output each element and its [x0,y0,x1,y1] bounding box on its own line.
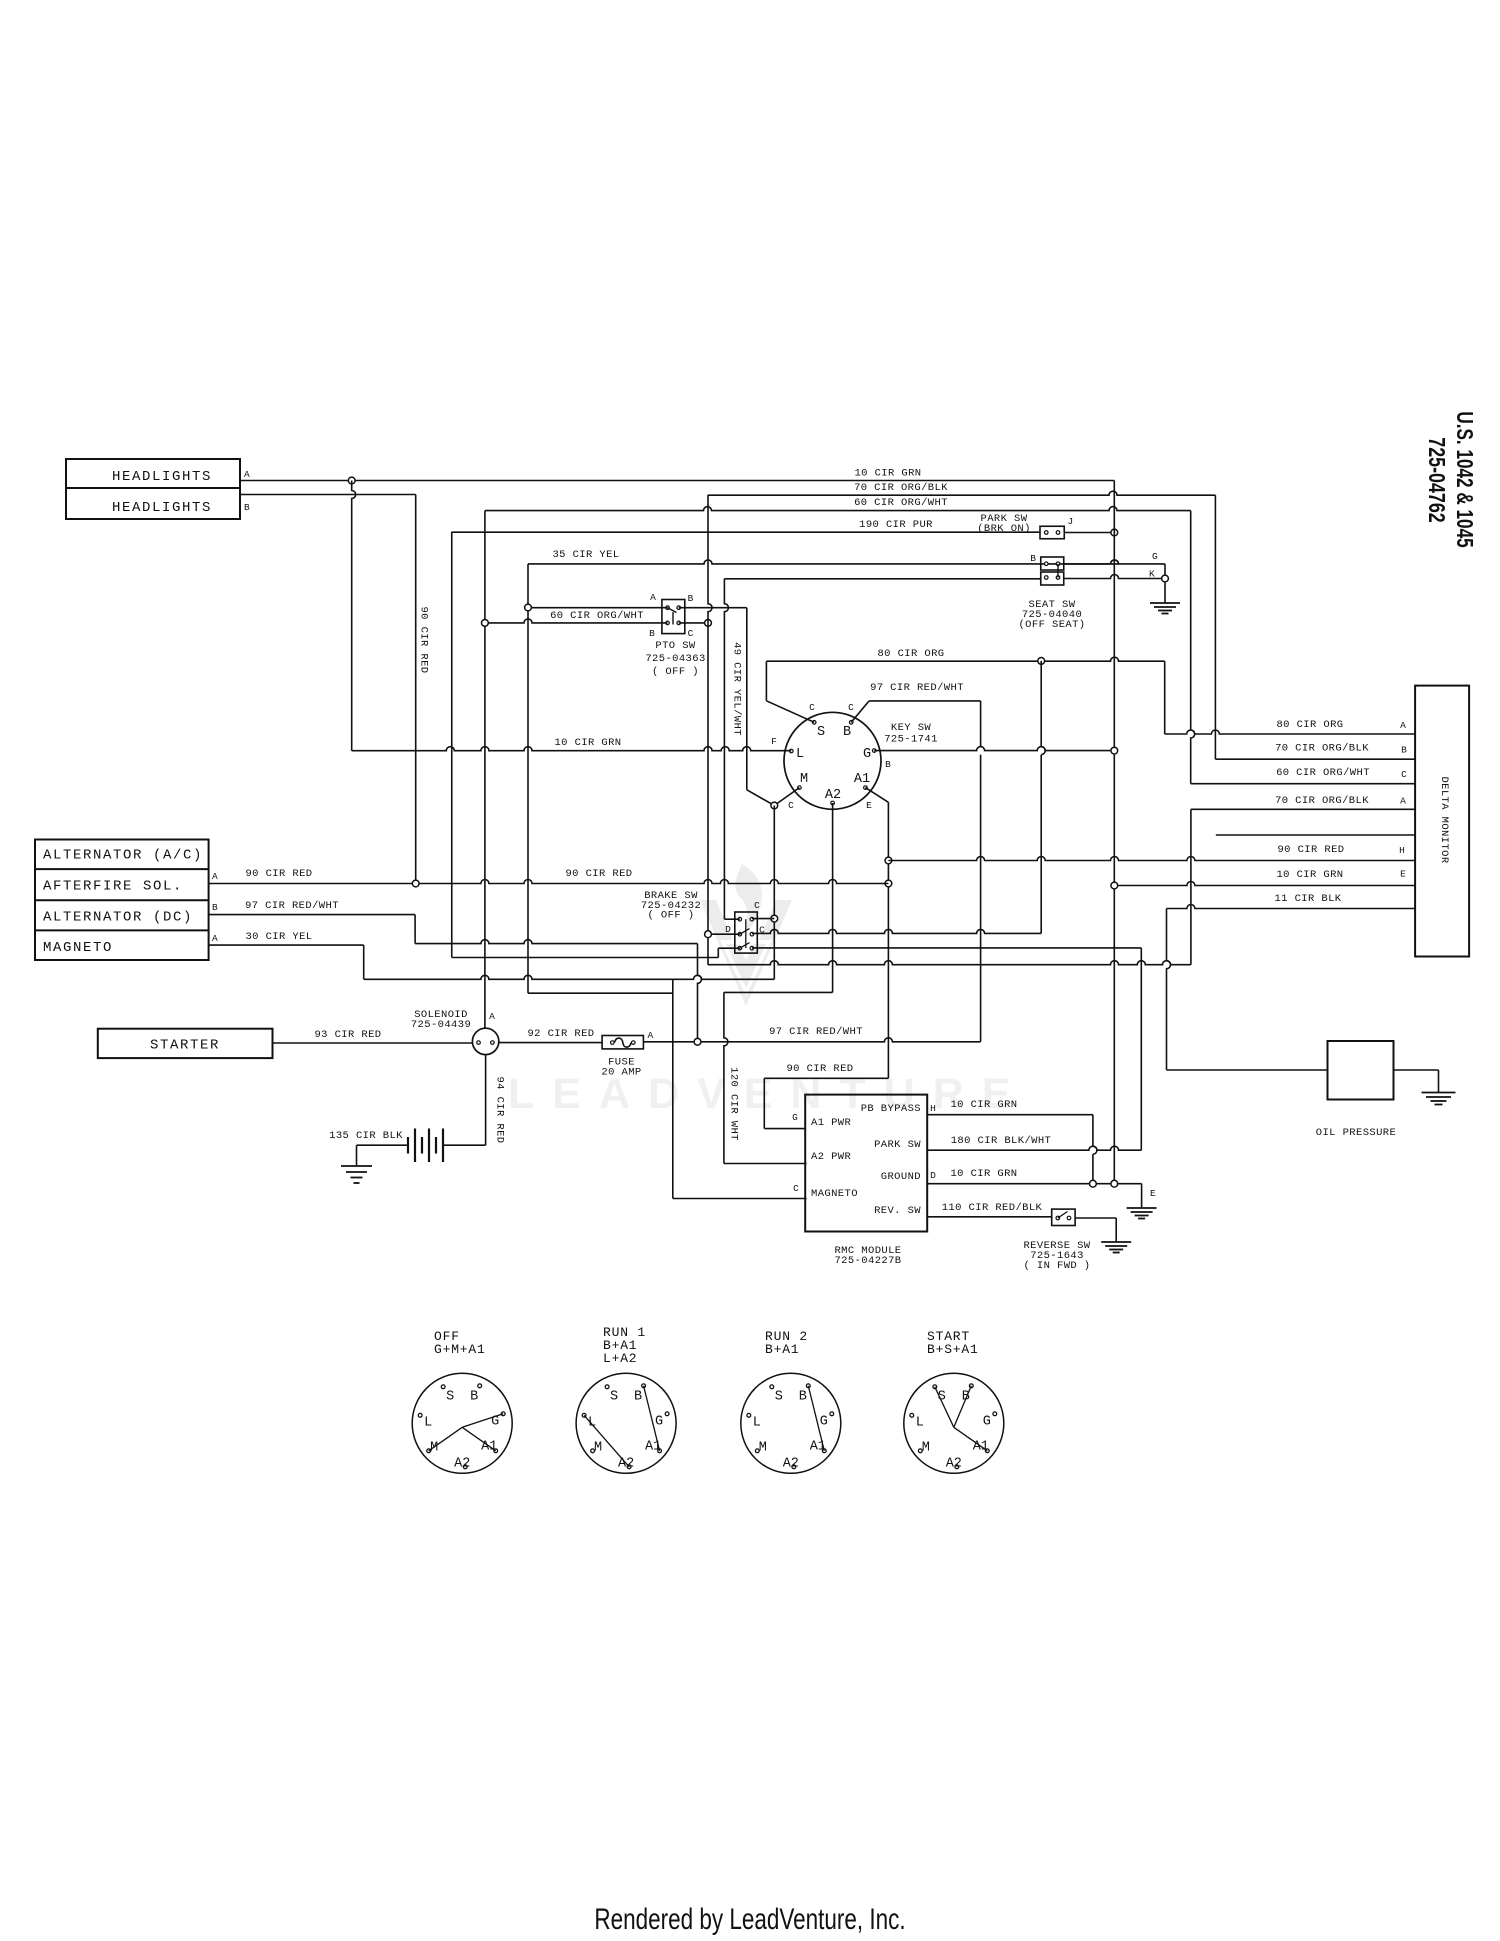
label FUSE 20 AMP [601,1057,641,1079]
svg-text:H: H [1399,845,1405,856]
label 70 CIR ORG/BLK (top) [854,482,948,494]
label E (ground) [1150,1188,1156,1199]
wire 70 CIR ORG/BLK (top) [708,491,1216,495]
svg-text:G+M+A1: G+M+A1 [434,1342,486,1357]
svg-text:A: A [650,592,656,603]
svg-text:B: B [885,759,891,770]
wire park SW to junction [1064,532,1114,534]
svg-text:( OFF ): ( OFF ) [652,666,699,678]
svg-text:10 CIR GRN: 10 CIR GRN [1276,869,1343,881]
wire RMC ground 10 CIR GRN [927,1183,1141,1185]
alternator / afterfire / magneto box stack [35,840,209,961]
svg-text:E: E [1400,869,1406,880]
wire key A1 drop [865,788,888,1079]
svg-text:S: S [775,1389,783,1404]
wire 190 CIR PUR vertical [451,532,453,958]
svg-text:A: A [647,1030,653,1041]
label 92 CIR RED [527,1028,594,1040]
key pin label S [817,725,825,740]
wire oil pressure to ground [1394,1070,1439,1093]
svg-text:A: A [212,871,218,882]
key switch 725-1741 [784,712,881,809]
svg-text:A: A [212,933,218,944]
junction (brake row1 / M) [771,915,778,922]
wire pto pin A feed [528,607,668,609]
label 97 CIR RED/WHT (alternator) [245,900,339,912]
label KEY SW 725-1741 [884,722,938,746]
svg-text:L: L [753,1415,761,1430]
svg-text:90 CIR RED: 90 CIR RED [245,868,312,880]
label PTO SW 725-04363 (OFF) [645,640,705,678]
svg-text:725-04762: 725-04762 [1423,437,1449,522]
svg-text:B: B [244,502,250,513]
svg-text:B: B [843,725,851,740]
svg-text:(BRK ON): (BRK ON) [977,523,1031,535]
junction (35 yel / pto A) [525,604,532,611]
label 97 CIR RED/WHT (key B) [870,682,964,694]
wire headlight A drop to key L [352,481,356,751]
svg-text:725-1741: 725-1741 [884,734,938,746]
svg-text:C: C [754,900,760,911]
ground (seat SW) [1150,603,1180,614]
svg-text:80 CIR ORG: 80 CIR ORG [1276,719,1343,731]
wire pto pin B out [679,607,747,609]
label 10 CIR GRN (delta E) [1276,869,1343,881]
wire 135 CIR BLK [357,1145,409,1166]
svg-text:11 CIR BLK: 11 CIR BLK [1274,893,1341,905]
svg-text:C: C [809,702,815,713]
label GROUND (rmc) [881,1171,921,1183]
svg-text:B+S+A1: B+S+A1 [927,1342,979,1357]
svg-text:90 CIR RED: 90 CIR RED [1277,844,1344,856]
wire RMC magneto feed [673,1198,807,1200]
label D (brake) [725,924,731,935]
svg-text:70 CIR ORG/BLK: 70 CIR ORG/BLK [1275,743,1369,755]
label A (solenoid) [489,1011,495,1022]
junction (ground bus / delta E) [1111,882,1118,889]
wire magneto kill drop [672,979,674,1198]
pin label A (magneto) [212,933,218,944]
label A1 PWR [811,1117,852,1129]
svg-text:B: B [470,1389,478,1404]
label PARK SW (rmc) [874,1139,921,1151]
wire 110 CIR RED/BLK [927,1216,1051,1218]
wire brake D feed [708,933,740,935]
label H (rmc pb) [930,1103,936,1114]
junction (A1 / delta H) [885,857,892,864]
label 10 CIR GRN (ground) [950,1168,1017,1180]
svg-text:B: B [1401,745,1407,756]
label B (pto top) [688,593,694,604]
svg-text:MAGNETO: MAGNETO [43,940,113,956]
wire 97 CIR RED/WHT (fuse bus) [643,1038,980,1042]
label C (delta pin) [1401,769,1407,780]
svg-text:S: S [446,1389,454,1404]
svg-text:725-04363: 725-04363 [645,653,705,665]
svg-text:Rendered by LeadVenture, Inc.: Rendered by LeadVenture, Inc. [594,1902,905,1936]
wire 60 CIR ORG/WHT lower [485,619,668,623]
wire key G ground [874,747,1114,751]
wire brake row3 left jog [718,948,740,957]
svg-text:49 CIR YEL/WHT: 49 CIR YEL/WHT [731,642,743,736]
svg-text:E: E [866,800,872,811]
wire 30 CIR YEL [209,945,775,979]
svg-text:725-04439: 725-04439 [411,1019,471,1031]
label B (G wire) [885,759,891,770]
wire 92 CIR RED [499,1042,602,1044]
label 80 CIR ORG (delta A) [1276,719,1343,731]
svg-text:92 CIR RED: 92 CIR RED [527,1028,594,1040]
label J [1068,516,1074,527]
label BRAKE SW 725-04232 (OFF) [641,890,701,922]
junction (80 org / brake C) [1038,658,1045,665]
svg-text:C: C [688,628,694,639]
svg-text:OIL PRESSURE: OIL PRESSURE [1316,1127,1396,1139]
svg-text:U.S. 1042 & 1045: U.S. 1042 & 1045 [1451,411,1477,547]
seat SW 725-04040 [1041,557,1064,585]
pin label A (afterfire) [212,871,218,882]
svg-text:M: M [759,1440,767,1455]
wire key M to junction [774,788,799,806]
wire key L feed [352,747,792,751]
label 90 CIR RED (mid) [565,868,632,880]
svg-text:STARTER: STARTER [150,1038,220,1054]
svg-text:( IN FWD ): ( IN FWD ) [1023,1260,1090,1272]
svg-text:20 AMP: 20 AMP [601,1067,641,1079]
label SEAT SW 725-04040 (OFF SEAT) [1018,599,1085,631]
label 80 CIR ORG [877,648,944,660]
svg-text:A2: A2 [454,1456,470,1471]
svg-text:E: E [1150,1188,1156,1199]
label REVERSE SW 725-1643 (IN FWD) [1023,1240,1090,1272]
label C (pto) [688,628,694,639]
svg-text:B: B [634,1389,642,1404]
wire key A2 drop [832,803,834,992]
wire RMC A2 feed [724,1163,807,1165]
wire 11 CIR BLK [1167,905,1416,909]
svg-text:A1 PWR: A1 PWR [811,1117,852,1129]
svg-text:70 CIR ORG/BLK: 70 CIR ORG/BLK [1275,795,1369,807]
svg-text:93 CIR RED: 93 CIR RED [314,1029,381,1041]
label K (seat) [1149,569,1155,580]
solenoid 725-04439 [472,1028,498,1054]
label G (rmc a1) [792,1112,798,1123]
label 110 CIR RED/BLK [942,1202,1043,1214]
brake switch 725-04232 [735,912,758,953]
title U.S. 1042 & 1045 [1451,411,1477,547]
svg-text:35 CIR YEL: 35 CIR YEL [552,549,619,561]
key position RUN 1 [576,1325,676,1473]
svg-text:190 CIR PUR: 190 CIR PUR [859,519,933,531]
wire 190 pur run [452,957,719,959]
rmc module 725-04227B [805,1095,927,1232]
wire seat ground drop [1164,564,1166,579]
svg-text:J: J [1068,516,1074,527]
svg-text:G: G [792,1112,798,1123]
wire 120 CIR WHT vertical [724,992,728,1163]
label H (delta pin) [1399,845,1405,856]
label D (rmc ground) [930,1170,936,1181]
svg-text:G: G [983,1414,991,1429]
svg-text:GROUND: GROUND [881,1171,921,1183]
pin label B (alternator dc) [212,902,218,913]
wire brake C out [752,929,1041,933]
svg-text:97 CIR RED/WHT: 97 CIR RED/WHT [245,900,339,912]
label C (B wire) [848,702,854,713]
junction (A1 / 90 cir red) [885,880,892,887]
svg-text:L: L [424,1415,432,1430]
label C (M wire) [788,800,794,811]
svg-text:C: C [788,800,794,811]
svg-text:10 CIR GRN: 10 CIR GRN [950,1099,1017,1111]
wire 70 org/blk drop vertical [708,495,712,965]
label 60 CIR ORG/WHT (lower) [550,610,644,622]
wire seat G [1064,560,1165,564]
svg-text:10 CIR GRN: 10 CIR GRN [554,737,621,749]
footer Rendered by LeadVenture, Inc. [594,1902,905,1936]
key position RUN 2 [741,1329,841,1473]
label 35 CIR YEL [552,549,619,561]
wire 190 CIR PUR [452,531,1040,533]
park SW 725-04040 [1040,526,1064,539]
svg-text:PB BYPASS: PB BYPASS [861,1103,921,1115]
svg-text:120 CIR WHT: 120 CIR WHT [728,1067,740,1141]
wire 80 CIR ORG [766,657,1164,722]
key pin label A1 [854,772,870,787]
wire 97 CIR RED/WHT (alternator dc) [209,915,698,944]
wire delta stub [1216,834,1415,836]
wire 10 CIR GRN (headlight A) [240,480,1114,482]
svg-text:HEADLIGHTS: HEADLIGHTS [112,500,212,516]
wire pto pin C out [679,622,708,624]
svg-text:C: C [793,1183,799,1194]
svg-text:M: M [922,1440,930,1455]
ground (oil pressure) [1422,1093,1456,1105]
svg-text:110 CIR RED/BLK: 110 CIR RED/BLK [942,1202,1043,1214]
wire 94 CIR RED [485,1055,487,1146]
wire 90 CIR RED (afterfire) [209,880,889,884]
label 90 CIR RED (rmc) [786,1063,853,1075]
svg-text:F: F [771,736,777,747]
svg-text:HEADLIGHTS: HEADLIGHTS [112,469,212,485]
wire 90 CIR RED (rmc A1) [764,1078,888,1128]
label RMC MODULE 725-04227B [834,1245,901,1267]
svg-text:M: M [800,772,808,787]
svg-text:A: A [244,469,250,480]
svg-text:A2: A2 [783,1456,799,1471]
label C (brake top) [754,900,760,911]
wire reverse to ground [1075,1218,1116,1242]
svg-text:10 CIR GRN: 10 CIR GRN [950,1168,1017,1180]
pin label A (headlights) [244,469,250,480]
label 94 CIR RED [494,1076,506,1143]
label 10 CIR GRN (top) [854,468,921,480]
svg-text:L: L [916,1415,924,1430]
svg-text:(OFF SEAT): (OFF SEAT) [1018,619,1085,631]
label C (rmc magneto) [793,1183,799,1194]
wire key B drop [980,701,982,1042]
svg-text:K: K [1149,569,1155,580]
label REV. SW (rmc) [874,1205,921,1217]
svg-text:70 CIR ORG/BLK: 70 CIR ORG/BLK [854,482,948,494]
label 70 CIR ORG/BLK (delta A2) [1275,795,1369,807]
wire 120 CIR WHT link [724,991,833,993]
svg-text:97 CIR RED/WHT: 97 CIR RED/WHT [870,682,964,694]
wire battery positive [443,1144,486,1146]
svg-text:AFTERFIRE SOL.: AFTERFIRE SOL. [43,879,183,895]
label 93 CIR RED [314,1029,381,1041]
wire seat K [1064,575,1165,579]
wire 80 org to delta A [1164,661,1166,734]
wire delta pin A feed [1165,730,1415,734]
svg-text:D: D [725,924,731,935]
wire E ground drop [1141,1184,1143,1208]
key position START [904,1329,1004,1473]
wire delta A2 feed [708,809,1415,964]
junction (seat ground) [1162,575,1169,582]
svg-text:REV. SW: REV. SW [874,1205,921,1217]
key pin label G [863,747,871,762]
label MAGNETO (rmc) [811,1188,858,1200]
svg-text:A1: A1 [854,772,870,787]
label 190 CIR PUR [859,519,933,531]
wire brake row1 left [724,918,739,920]
svg-text:A2: A2 [946,1456,962,1471]
svg-text:A: A [489,1011,495,1022]
wire seat SW lower feed [724,578,1040,580]
svg-text:M: M [594,1440,602,1455]
ground (battery) [341,1166,372,1183]
wire 11 blk to oil pressure [1167,909,1328,1071]
label DELTA MONITOR [1438,776,1450,863]
svg-text:MAGNETO: MAGNETO [811,1188,858,1200]
svg-text:A2 PWR: A2 PWR [811,1151,852,1163]
label F (L wire) [771,736,777,747]
label 70 CIR ORG/BLK (delta B) [1275,743,1369,755]
junction (60 org/wht tap) [482,620,489,627]
wire delta H 90 CIR RED [888,857,1415,861]
label 90 CIR RED (delta H) [1277,844,1344,856]
svg-text:B: B [212,902,218,913]
label 90 CIR RED (afterfire) [245,868,312,880]
label A (delta pin) [1400,720,1406,731]
wire magneto kill link [528,992,673,994]
wire 49 CIR YEL/WHT vertical [747,608,771,804]
label 49 CIR YEL/WHT [731,642,743,736]
wire PB bypass 10 CIR GRN [927,1115,1097,1184]
svg-text:DELTA MONITOR: DELTA MONITOR [1438,776,1450,863]
wire 93 CIR RED [273,1042,473,1044]
label C (brake mid) [759,925,765,936]
label SOLENOID 725-04439 [411,1009,471,1031]
wire 97 red/wht drop to fuse bus [698,944,702,1042]
label 30 CIR YEL [245,931,312,943]
wire RMC park feed [927,1146,1141,1150]
svg-text:A: A [1400,720,1406,731]
label OIL PRESSURE [1316,1127,1396,1139]
wire delta E 10 CIR GRN [1115,882,1416,886]
junction (park SW / ground bus) [1111,529,1118,536]
ground (reverse) [1101,1242,1131,1253]
label A (fuse) [647,1030,653,1041]
label 11 CIR BLK [1274,893,1341,905]
svg-text:S: S [610,1389,618,1404]
wire 35 CIR YEL [528,560,1119,564]
label B (pto bottom) [649,628,655,639]
label 10 CIR GRN (key L) [554,737,621,749]
svg-text:60 CIR ORG/WHT: 60 CIR ORG/WHT [1276,767,1370,779]
headlights box 1 [66,459,240,488]
reverse switch 725-1643 [1052,1209,1075,1225]
svg-text:H: H [930,1103,936,1114]
svg-text:PTO SW: PTO SW [655,640,696,652]
svg-text:ALTERNATOR (DC): ALTERNATOR (DC) [43,910,193,926]
svg-text:90 CIR RED: 90 CIR RED [418,606,430,673]
wire delta pin C feed [1191,783,1415,785]
svg-text:A: A [1400,796,1406,807]
wire 60 CIR ORG/WHT (top) [485,507,1191,511]
label E (delta pin) [1400,869,1406,880]
svg-text:10 CIR GRN: 10 CIR GRN [854,468,921,480]
label 97 CIR RED/WHT (fuse) [769,1026,863,1038]
pto switch 725-04363 [662,600,685,634]
svg-text:60 CIR ORG/WHT: 60 CIR ORG/WHT [550,610,644,622]
svg-text:G: G [655,1414,663,1429]
svg-text:D: D [930,1170,936,1181]
svg-text:L+A2: L+A2 [603,1351,637,1366]
key pin label M [800,772,808,787]
svg-text:ALTERNATOR (A/C): ALTERNATOR (A/C) [43,848,203,864]
label A2 PWR [811,1151,852,1163]
wire 180 CIR BLK/WHT [752,947,1141,949]
wire 60 CIR ORG/WHT vertical to solenoid [484,511,486,1029]
svg-text:C: C [848,702,854,713]
wire 70 CIR ORG/BLK to delta B [1214,495,1216,759]
svg-text:S: S [817,725,825,740]
label A (delta pin 2) [1400,796,1406,807]
label PARK SW (BRK ON) [977,513,1031,535]
wire 90 CIR RED vertical (headlight B) [415,495,417,884]
junction (key G / ground bus) [1111,747,1118,754]
svg-text:94 CIR RED: 94 CIR RED [494,1076,506,1143]
ground (E) [1127,1208,1157,1219]
svg-text:30 CIR YEL: 30 CIR YEL [245,931,312,943]
junction (ground bus / rmc ground) [1111,1180,1118,1187]
wire seat to brake vertical [724,579,728,919]
svg-text:PARK SW: PARK SW [874,1139,921,1151]
svg-text:G: G [820,1414,828,1429]
starter box [98,1029,273,1058]
label 10 CIR GRN (pb) [950,1099,1017,1111]
junction (brake D) [705,931,712,938]
label 60 CIR ORG/WHT (top) [854,497,948,509]
key pin label B [843,725,851,740]
label 60 CIR ORG/WHT (delta C) [1276,767,1370,779]
svg-text:180 CIR BLK/WHT: 180 CIR BLK/WHT [951,1135,1052,1147]
delta monitor box [1415,686,1469,957]
wire 97 CIR RED/WHT (key B) [851,701,980,722]
label PB BYPASS [861,1103,921,1115]
wire 60 CIR ORG/WHT to delta C [1191,511,1195,784]
svg-text:80 CIR ORG: 80 CIR ORG [877,648,944,660]
battery [408,1129,443,1163]
headlights box 2 [66,488,240,519]
junction (key M) [771,802,778,809]
svg-text:G: G [863,747,871,762]
label 90 CIR RED (vertical) [418,606,430,673]
pin label B (headlights) [244,502,250,513]
label E (A1 wire) [866,800,872,811]
